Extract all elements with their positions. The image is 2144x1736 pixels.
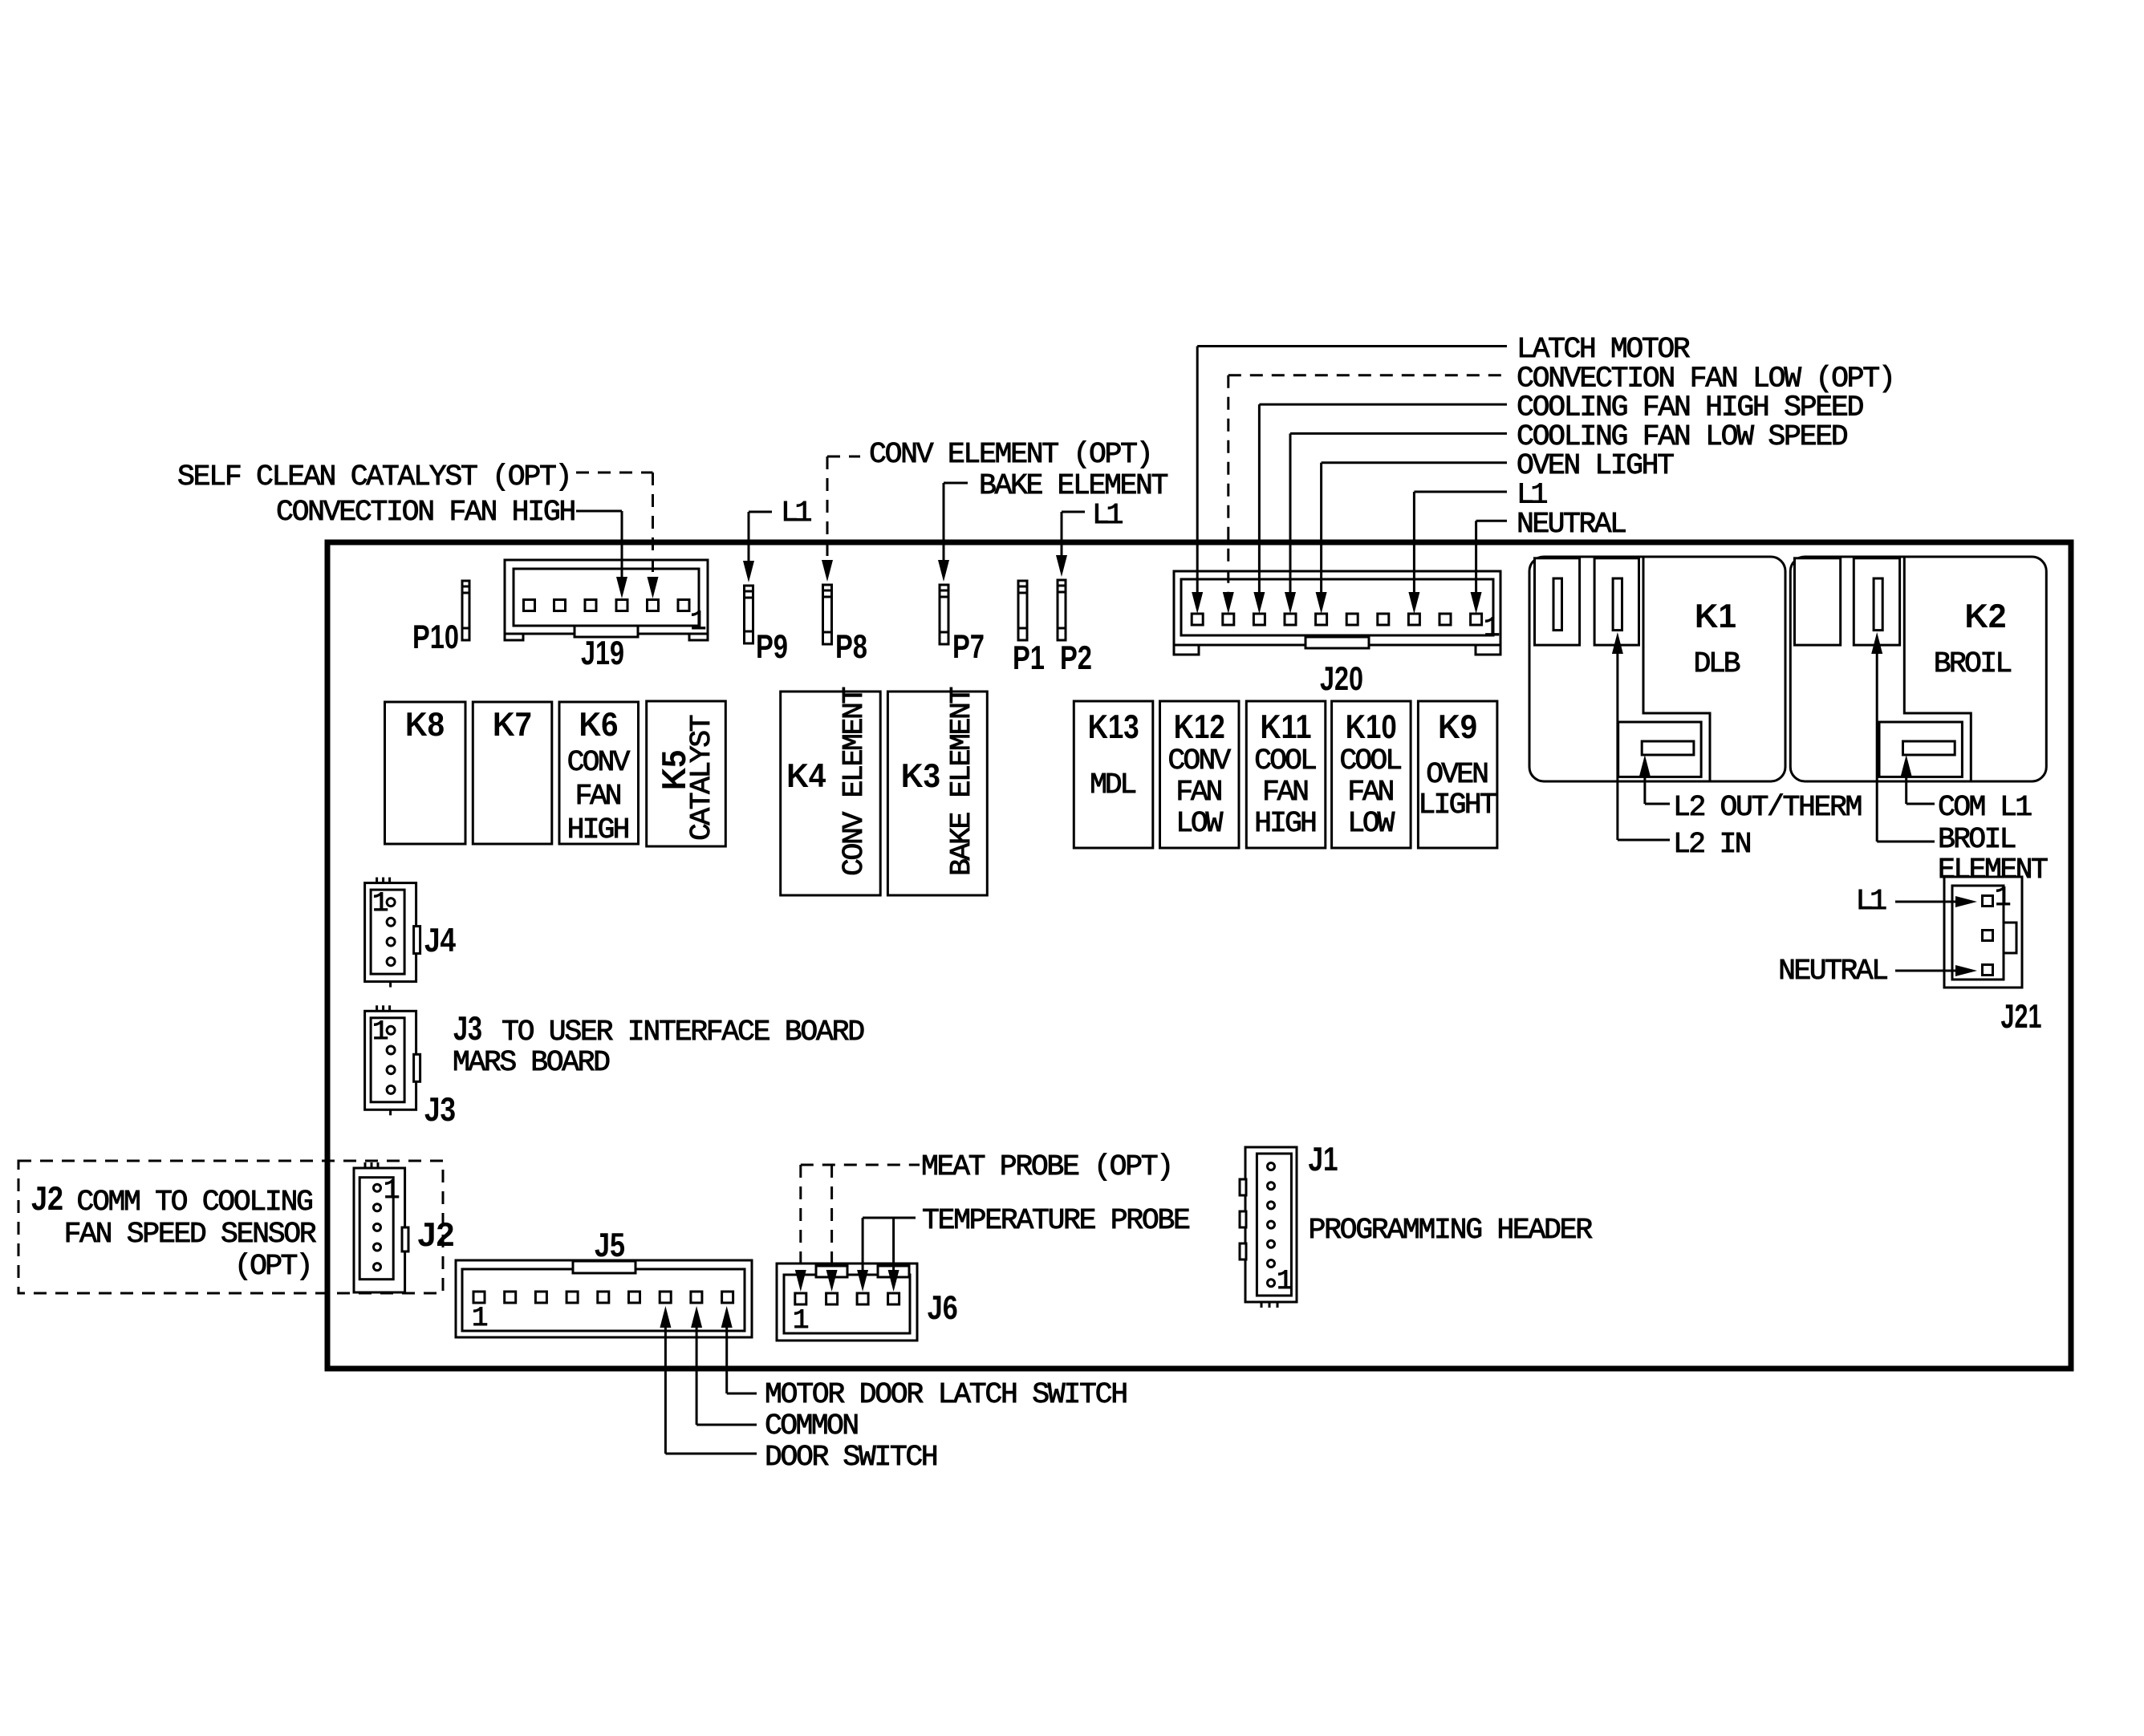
svg-text:K6: K6 [579, 705, 619, 743]
svg-text:MARS BOARD: MARS BOARD [453, 1046, 611, 1079]
svg-text:L1: L1 [1856, 885, 1887, 918]
svg-text:COOLING FAN LOW SPEED: COOLING FAN LOW SPEED [1517, 420, 1849, 453]
svg-text:COOL: COOL [1339, 744, 1403, 777]
svg-text:MEAT PROBE (OPT): MEAT PROBE (OPT) [921, 1150, 1174, 1183]
svg-text:LIGHT: LIGHT [1418, 789, 1497, 821]
svg-text:OVEN: OVEN [1426, 758, 1489, 791]
svg-text:1: 1 [372, 889, 388, 919]
svg-text:1: 1 [472, 1304, 488, 1334]
svg-text:BAKE ELEMENT: BAKE ELEMENT [945, 687, 978, 876]
svg-text:1: 1 [690, 607, 706, 638]
svg-text:1: 1 [384, 1176, 400, 1207]
svg-text:BAKE ELEMENT: BAKE ELEMENT [979, 469, 1168, 502]
svg-text:CONV ELEMENT: CONV ELEMENT [838, 687, 871, 876]
svg-text:P9: P9 [756, 627, 788, 665]
svg-text:LOW: LOW [1347, 807, 1395, 840]
svg-text:L1: L1 [1517, 479, 1548, 512]
svg-text:J4: J4 [424, 921, 457, 959]
svg-text:K2: K2 [1965, 597, 2007, 635]
svg-text:FAN: FAN [1262, 776, 1310, 809]
svg-text:COM L1: COM L1 [1938, 791, 2032, 824]
svg-text:L1: L1 [781, 497, 812, 529]
svg-text:K11: K11 [1261, 708, 1312, 745]
svg-text:FAN: FAN [1176, 776, 1223, 809]
svg-text:MDL: MDL [1090, 769, 1137, 801]
svg-text:J20: J20 [1320, 659, 1363, 697]
svg-text:MOTOR DOOR LATCH SWITCH: MOTOR DOOR LATCH SWITCH [765, 1378, 1128, 1411]
svg-text:FAN SPEED SENSOR: FAN SPEED SENSOR [64, 1218, 317, 1251]
svg-text:P8: P8 [835, 627, 867, 665]
svg-text:HIGH: HIGH [567, 813, 631, 846]
svg-text:K8: K8 [405, 705, 445, 743]
svg-text:J2: J2 [31, 1179, 63, 1217]
svg-text:L2 OUT/THERM: L2 OUT/THERM [1673, 791, 1862, 824]
svg-text:CATALYST: CATALYST [685, 714, 718, 841]
svg-text:(OPT): (OPT) [234, 1250, 314, 1283]
svg-text:K10: K10 [1346, 708, 1397, 745]
svg-text:SELF CLEAN CATALYST (OPT): SELF CLEAN CATALYST (OPT) [177, 460, 573, 493]
svg-text:CONVECTION FAN LOW (OPT): CONVECTION FAN LOW (OPT) [1517, 362, 1896, 395]
svg-text:L2 IN: L2 IN [1673, 828, 1752, 861]
svg-text:LATCH MOTOR: LATCH MOTOR [1517, 333, 1691, 366]
svg-text:L1: L1 [1092, 499, 1123, 532]
svg-text:J1: J1 [1309, 1140, 1338, 1178]
svg-text:1: 1 [372, 1017, 388, 1048]
svg-text:OVEN LIGHT: OVEN LIGHT [1517, 449, 1675, 482]
svg-text:PROGRAMMING HEADER: PROGRAMMING HEADER [1309, 1214, 1594, 1247]
svg-text:J19: J19 [581, 634, 624, 671]
svg-text:1: 1 [1995, 883, 2011, 914]
svg-text:FAN: FAN [575, 780, 622, 813]
svg-text:K7: K7 [493, 705, 532, 743]
svg-text:COMM TO COOLING: COMM TO COOLING [76, 1186, 314, 1219]
svg-text:HIGH: HIGH [1254, 807, 1318, 840]
svg-text:K12: K12 [1174, 708, 1225, 745]
svg-text:NEUTRAL: NEUTRAL [1778, 955, 1889, 988]
svg-text:COOL: COOL [1254, 744, 1318, 777]
svg-text:TO USER INTERFACE BOARD: TO USER INTERFACE BOARD [501, 1016, 865, 1048]
svg-text:COMMON: COMMON [765, 1409, 859, 1442]
svg-text:BROIL: BROIL [1934, 647, 2013, 680]
svg-text:1: 1 [1484, 614, 1500, 644]
svg-text:J2: J2 [418, 1215, 455, 1253]
svg-text:CONV: CONV [1167, 744, 1231, 777]
svg-text:CONV ELEMENT (OPT): CONV ELEMENT (OPT) [869, 438, 1154, 471]
svg-text:NEUTRAL: NEUTRAL [1517, 508, 1627, 541]
svg-text:COOLING FAN HIGH SPEED: COOLING FAN HIGH SPEED [1517, 391, 1864, 424]
svg-text:K1: K1 [1695, 597, 1736, 635]
svg-text:LOW: LOW [1176, 807, 1223, 840]
svg-text:CONVECTION FAN HIGH: CONVECTION FAN HIGH [276, 496, 576, 529]
svg-text:DOOR SWITCH: DOOR SWITCH [765, 1441, 939, 1474]
svg-text:FAN: FAN [1347, 776, 1395, 809]
svg-text:P10: P10 [412, 618, 459, 655]
svg-text:P2: P2 [1060, 639, 1092, 676]
svg-text:K9: K9 [1438, 708, 1477, 745]
svg-text:BROIL: BROIL [1938, 823, 2017, 856]
svg-text:CONV: CONV [567, 746, 631, 779]
svg-text:J6: J6 [928, 1288, 958, 1326]
svg-text:K3: K3 [901, 756, 940, 794]
svg-text:K4: K4 [786, 756, 826, 794]
svg-text:DLB: DLB [1693, 647, 1740, 680]
svg-text:P7: P7 [952, 627, 985, 665]
svg-text:K13: K13 [1088, 708, 1139, 745]
svg-text:J3: J3 [453, 1009, 482, 1047]
svg-text:TEMPERATURE PROBE: TEMPERATURE PROBE [922, 1204, 1191, 1237]
svg-text:1: 1 [1277, 1267, 1293, 1297]
svg-text:P1: P1 [1013, 639, 1045, 676]
svg-text:1: 1 [793, 1306, 809, 1336]
svg-text:J21: J21 [2001, 997, 2042, 1035]
svg-text:J3: J3 [424, 1090, 456, 1128]
svg-text:J5: J5 [595, 1226, 625, 1263]
